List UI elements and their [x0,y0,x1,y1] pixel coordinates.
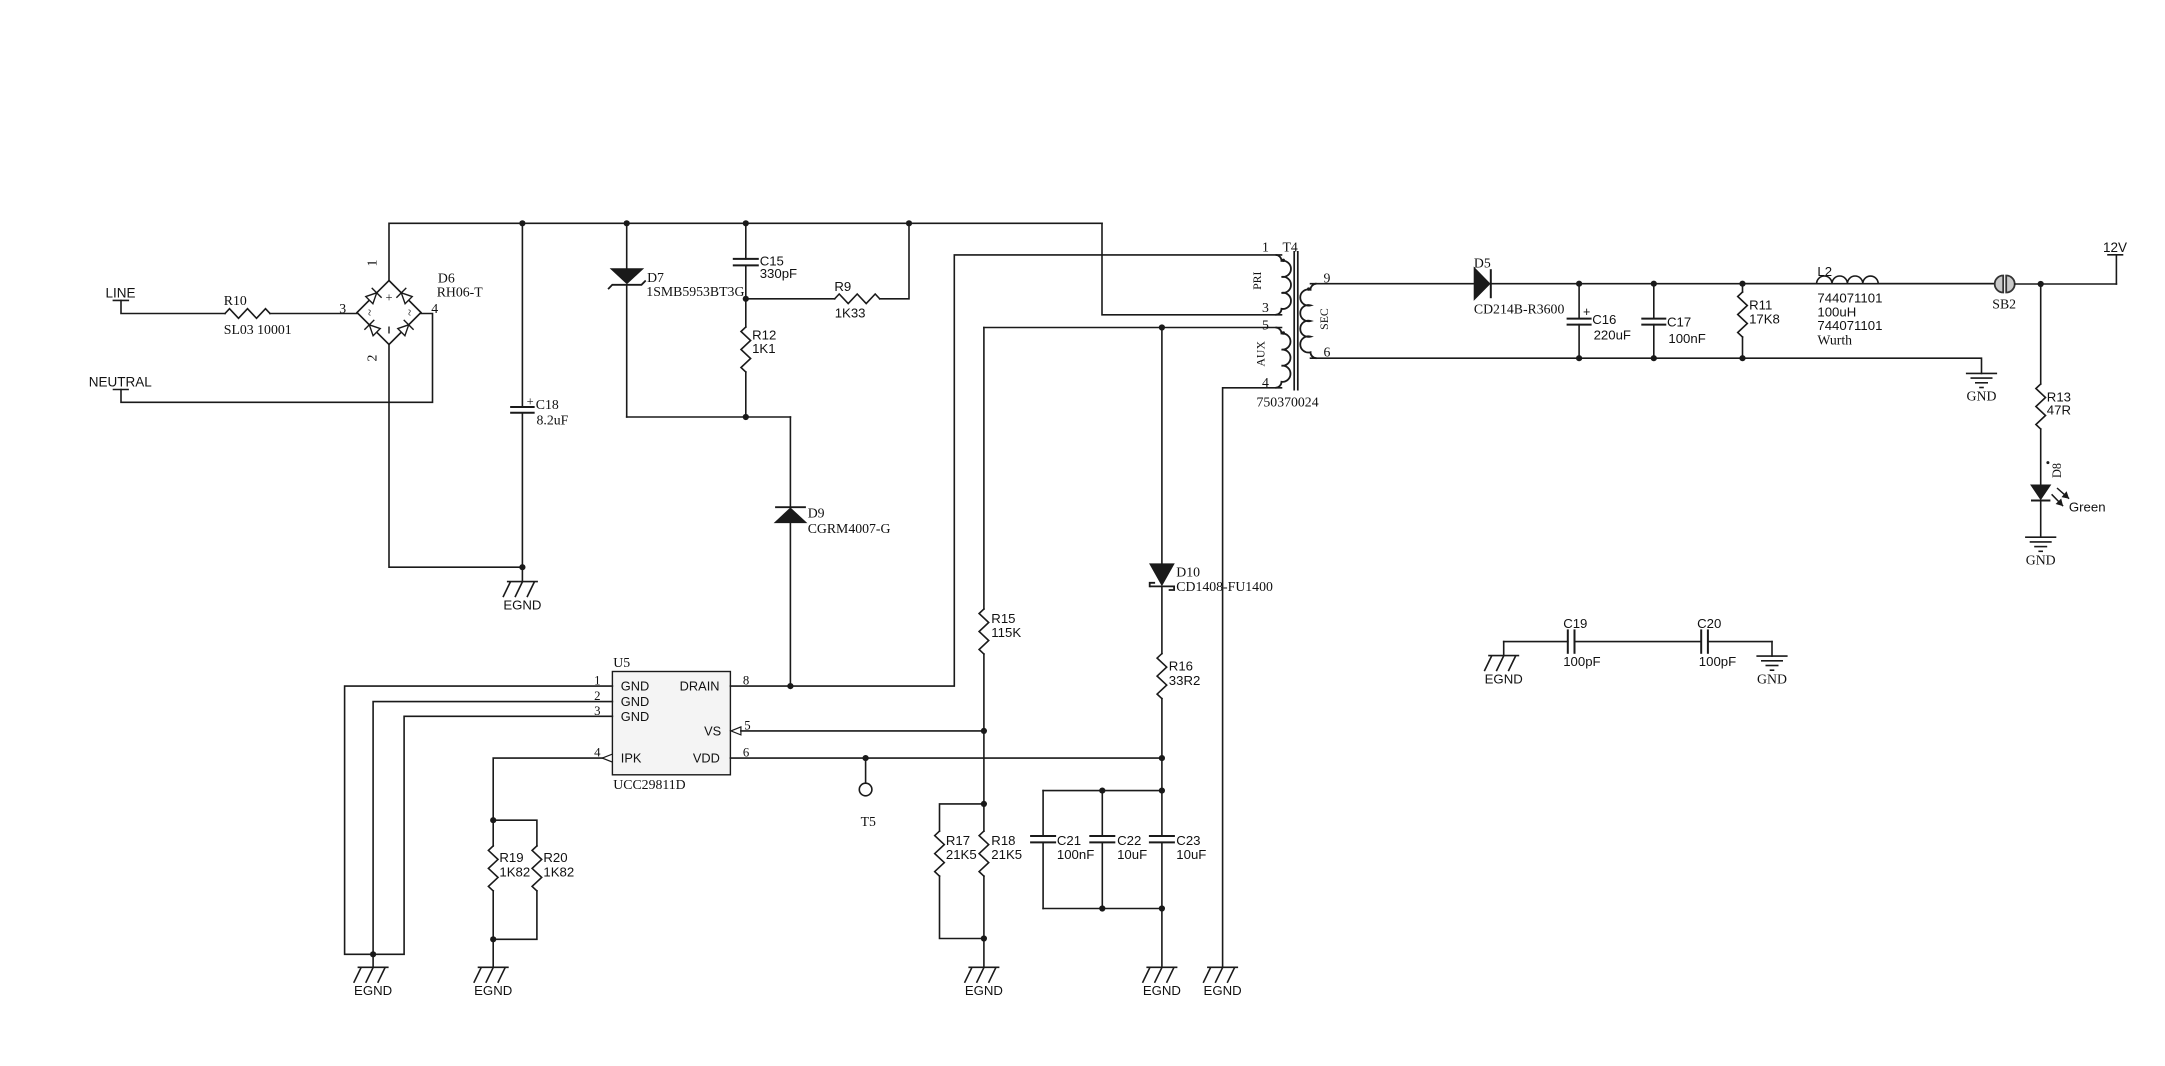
svg-text:EGND: EGND [1143,983,1181,998]
svg-text:D5: D5 [1474,255,1491,270]
svg-text:UCC29811D: UCC29811D [613,777,685,792]
wire [121,300,225,313]
svg-text:VS: VS [704,724,721,739]
svg-text:C21: C21 [1057,833,1081,848]
resistor R13 [2040,284,2042,384]
svg-text:EGND: EGND [1485,671,1523,686]
bridge rectifier D6 [357,281,421,345]
svg-text:GND: GND [621,694,649,709]
VS input arrow [731,727,741,735]
resistor R19 [492,820,494,846]
svg-text:100nF: 100nF [1057,847,1094,862]
svg-text:EGND: EGND [474,983,512,998]
wire pin3 GND [373,716,612,954]
T4 core [1293,251,1295,391]
svg-text:C17: C17 [1667,315,1691,330]
svg-text:+: + [385,291,392,305]
wire [521,223,523,407]
svg-text:GND: GND [2026,552,2056,567]
wire T4 pin4 [1223,388,1282,968]
junction [519,220,525,226]
ground EGND [983,939,985,968]
svg-text:R17: R17 [946,833,970,848]
capacitor C19 / C20 net [1504,641,1568,643]
inductor L2 [1743,283,1817,285]
ground EGND [1207,966,1238,968]
svg-text:6: 6 [1324,345,1331,360]
svg-text:R9: R9 [834,279,851,294]
svg-text:R16: R16 [1169,659,1193,674]
svg-text:744071101: 744071101 [1817,291,1882,306]
diode D9 [789,417,791,507]
svg-text:SEC: SEC [1317,308,1331,330]
svg-text:IPK: IPK [621,751,642,766]
svg-text:1K82: 1K82 [543,865,574,880]
svg-text:+: + [1583,305,1590,319]
capacitor C16 [1578,284,1580,319]
transformer T4 [1276,255,1291,315]
svg-text:115K: 115K [991,625,1021,640]
capacitor C19 [1567,629,1569,653]
wire [1043,790,1162,792]
svg-text:10uF: 10uF [1117,847,1147,862]
wire SEC pin9 [1311,283,1474,285]
svg-text:C20: C20 [1697,616,1721,631]
capacitor C22 [1101,791,1103,836]
svg-text:CGRM4007-G: CGRM4007-G [808,521,891,536]
T4 phase dots [1282,259,1285,262]
wire pin2 GND [373,702,612,955]
svg-text:VDD: VDD [693,751,720,766]
resistor R18 [983,804,985,831]
svg-text:SL03 10001: SL03 10001 [224,322,292,337]
wire [1878,283,1995,285]
svg-text:EGND: EGND [1204,983,1242,998]
svg-text:AUX: AUX [1254,341,1268,367]
capacitor C20 [1700,629,1702,653]
svg-text:U5: U5 [613,655,630,670]
svg-text:T4: T4 [1283,239,1298,254]
svg-text:D9: D9 [808,506,825,521]
svg-text:+: + [527,394,534,408]
svg-text:1SMB5953BT3G: 1SMB5953BT3G [646,284,744,299]
svg-text:EGND: EGND [965,983,1003,998]
svg-text:R10: R10 [224,293,247,308]
svg-text:2: 2 [365,354,380,361]
wire [389,223,1102,280]
svg-text:EGND: EGND [354,983,392,998]
svg-text:C22: C22 [1117,833,1141,848]
resistor R11 [1742,284,1744,292]
svg-text:4: 4 [1262,375,1269,390]
svg-text:D8: D8 [2050,463,2064,478]
svg-text:100uH: 100uH [1817,304,1856,319]
wire [121,314,433,403]
svg-text:100pF: 100pF [1563,654,1600,669]
ground GND [1771,642,1773,657]
resistor R20 [493,820,537,846]
LED D8 [2031,485,2050,499]
zener diode D7 [626,223,628,268]
ground EGND [492,939,494,967]
svg-text:SB2: SB2 [1992,297,2016,312]
svg-text:100pF: 100pF [1699,654,1736,669]
wire AUX pin5 [984,327,1282,329]
ground EGND [1503,642,1505,656]
svg-text:T5: T5 [861,814,876,829]
wire [389,345,522,568]
wire SEC pin6 / output return [1311,358,1982,373]
svg-text:~: ~ [403,309,417,316]
diode D10 [1161,328,1163,564]
svg-text:21K5: 21K5 [991,847,1022,862]
svg-text:GND: GND [1967,389,1997,404]
svg-text:NEUTRAL: NEUTRAL [89,374,153,389]
svg-text:47R: 47R [2047,403,2071,418]
wire DRAIN [730,255,1281,686]
resistor R17 [940,804,984,831]
svg-text:Wurth: Wurth [1817,333,1852,348]
resistor R9 [746,298,835,300]
svg-text:3: 3 [1262,300,1269,315]
wire VS [741,730,984,732]
svg-text:8.2uF: 8.2uF [537,412,569,427]
wire [1102,223,1282,314]
ground EGND [372,954,374,967]
svg-text:220uF: 220uF [1594,328,1631,343]
svg-text:750370024: 750370024 [1257,394,1319,409]
wire IPK [493,758,602,820]
svg-text:Green: Green [2069,500,2106,515]
ground EGND [1161,909,1163,968]
svg-text:100nF: 100nF [1668,331,1705,346]
resistor R10 [225,309,270,319]
capacitor C23 [1161,791,1163,836]
svg-text:17K8: 17K8 [1749,312,1780,327]
solder bridge SB2 [1995,276,2004,293]
svg-text:1: 1 [365,259,380,266]
diode D5 [1474,268,1490,300]
svg-text:3: 3 [339,301,346,316]
LED arrows [2057,488,2069,499]
svg-text:RH06-T: RH06-T [437,284,484,299]
wire [521,413,523,567]
capacitor C21 [1042,791,1044,836]
svg-text:744071101: 744071101 [1817,318,1882,333]
svg-text:D7: D7 [647,270,664,285]
svg-text:R15: R15 [991,611,1015,626]
svg-text:R11: R11 [1749,297,1772,312]
svg-text:1: 1 [1262,239,1269,254]
svg-text:R20: R20 [543,850,567,865]
svg-text:CD1408-FU1400: CD1408-FU1400 [1176,579,1273,594]
resistor R16 [1157,654,1167,699]
svg-text:GND: GND [621,679,649,694]
wire [270,313,357,315]
svg-text:DRAIN: DRAIN [680,679,720,694]
svg-text:5: 5 [1262,318,1269,333]
svg-text:~: ~ [363,309,377,316]
svg-text:D6: D6 [438,270,455,285]
svg-text:CD214B-R3600: CD214B-R3600 [1474,302,1565,317]
svg-text:330pF: 330pF [760,266,797,281]
wire [1043,908,1162,910]
IC U5 UCC29811D [612,672,730,775]
resistor R15 [983,328,985,610]
wire VDD [730,757,1162,759]
test point T5 [865,758,867,783]
svg-text:C23: C23 [1176,833,1200,848]
resistor R12 [745,299,747,327]
svg-text:GND: GND [1757,671,1787,686]
wire [1575,641,1702,643]
svg-text:12V: 12V [2103,240,2127,255]
svg-text:33R2: 33R2 [1169,673,1201,688]
svg-text:21K5: 21K5 [946,847,977,862]
svg-text:LINE: LINE [105,285,135,300]
wire [1708,641,1772,643]
svg-text:C19: C19 [1563,616,1587,631]
ground GND [1966,372,1997,374]
ground GND [2025,536,2056,538]
svg-text:1K33: 1K33 [835,306,866,321]
svg-text:C18: C18 [536,397,559,412]
wire pin1 GND [345,686,613,954]
wire [1161,758,1163,791]
svg-text:R18: R18 [991,833,1015,848]
svg-text:EGND: EGND [503,597,541,612]
svg-text:10uF: 10uF [1176,847,1206,862]
ground EGND [521,567,523,581]
IPK input arrow [602,754,612,762]
svg-text:L2: L2 [1817,264,1832,279]
svg-text:R19: R19 [499,850,523,865]
svg-text:GND: GND [621,709,649,724]
svg-text:1K82: 1K82 [499,865,530,880]
capacitor C15 [745,223,747,259]
wire [627,416,791,418]
svg-text:PRI: PRI [1250,271,1264,289]
svg-text:1K1: 1K1 [752,341,775,356]
svg-text:D10: D10 [1176,565,1200,580]
wire [2015,283,2116,285]
wire [1492,283,1995,285]
svg-text:C16: C16 [1592,312,1616,327]
capacitor C17 [1653,284,1655,319]
